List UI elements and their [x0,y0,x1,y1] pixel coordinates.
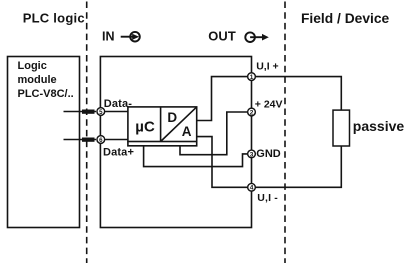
terminal 6 [97,136,105,144]
wire Data+ (logic module to terminal 6) [64,139,97,141]
svg-text:Data+: Data+ [103,147,134,159]
wire Data- (logic module to terminal 5) [64,111,97,113]
microcontroller / DAC block U1 [128,107,197,142]
svg-text:PLC-V8C/..: PLC-V8C/.. [18,88,74,100]
connector mark on Data- wire [82,110,95,114]
terminal 2 [248,108,256,116]
logic module box [8,57,80,228]
wire DAC lower output to terminal 4 [197,137,248,188]
connector mark on Data+ wire [82,138,95,142]
svg-text:PLC logic: PLC logic [23,10,85,25]
svg-text:+ 24V: + 24V [255,99,283,111]
svg-text:U,I -: U,I - [257,192,278,204]
svg-text:µC: µC [135,118,155,135]
svg-text:OUT: OUT [208,29,236,44]
svg-text:Logic: Logic [18,60,47,72]
svg-text:6: 6 [99,137,103,144]
field wire U,I+ to passive load [256,77,342,111]
input symbol (line into circle with arrowhead) [121,32,140,42]
logic module label [18,60,74,100]
svg-text:U,I +: U,I + [256,61,278,73]
svg-text:2: 2 [250,109,254,116]
terminal 4 [248,183,256,191]
dashed boundary line (OUT / Field) [284,0,286,263]
wire Data- (terminal 5 to uC) [104,111,128,113]
wire GND to terminal 3 [144,146,248,167]
output symbol (circle with arrow out) [245,32,268,42]
wire +24V supply to terminal 2 [180,112,247,155]
svg-text:passive: passive [353,118,405,134]
dashed boundary line (PLC logic / IN) [86,0,88,263]
wire Data+ (terminal 6 to uC) [104,139,128,141]
svg-text:3: 3 [250,151,254,158]
ground rail under block [128,142,197,146]
terminal 1 [248,73,256,81]
field wire U,I- to passive load [256,146,342,187]
svg-text:1: 1 [250,74,254,81]
svg-text:Field / Device: Field / Device [301,11,390,26]
svg-text:A: A [182,124,192,139]
svg-text:D: D [167,110,177,125]
svg-text:5: 5 [99,109,103,116]
wire DAC upper output to terminal 1 [197,77,248,121]
svg-text:IN: IN [102,30,115,44]
terminal 5 [97,108,105,116]
svg-text:module: module [18,74,57,86]
svg-text:4: 4 [250,185,254,192]
terminal 3 [248,150,256,158]
transducer outer box [100,57,251,228]
passive load R1 [333,110,350,146]
svg-text:GND: GND [256,148,281,160]
